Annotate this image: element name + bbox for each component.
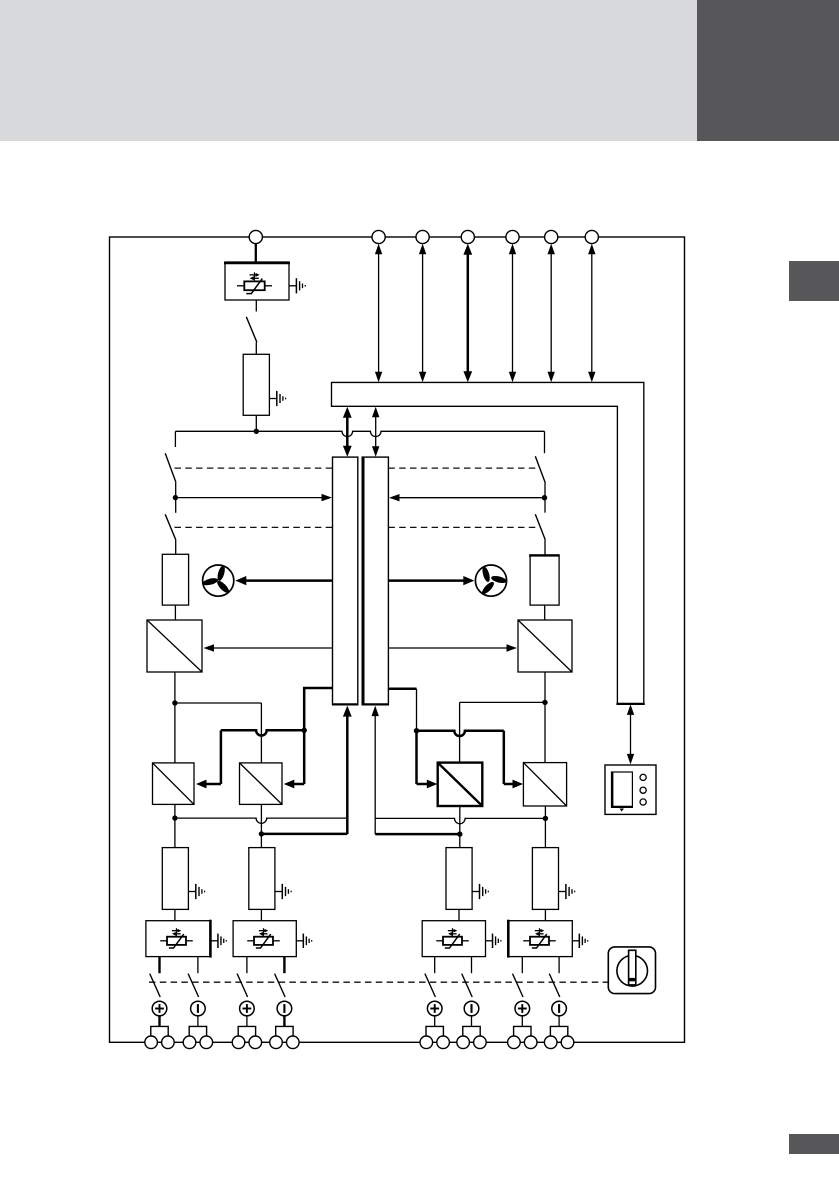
terminal bus 5 [545,230,558,243]
wire F6 to surge box [458,909,460,920]
converter U2 box [147,620,202,672]
terminal bracket 2 [189,1026,206,1036]
wire thin link left [175,818,347,823]
wire output stub 2 [197,957,199,974]
ground at F9 [296,940,303,942]
wire T1 to supply rail [255,415,257,431]
wire to terminal pair 4 [283,1016,285,1027]
wire left column drop [174,431,176,447]
wire to terminal pair 5 [434,1016,436,1027]
ground at F6 [472,891,479,893]
fuse F6 box [446,848,472,910]
wire output stub 4 [283,957,285,974]
wire arrow into U4 [205,783,221,786]
wire bus to display arrow [630,711,632,759]
wire dashed control right 2 [388,526,539,528]
wire to terminal pair 1 [158,1016,160,1027]
terminal bus 1 [372,230,385,243]
terminal bus 2 [416,230,429,243]
power supply T1 box [243,354,269,415]
converter U4 box [153,763,195,805]
terminal bracket 3 [238,1026,255,1036]
wire bus line 6 arrow [591,251,593,375]
wire dashed bottom control [149,981,608,983]
ground at F1 [289,285,296,287]
varistor RV5 [523,940,530,942]
terminal bracket 4 [276,1026,293,1036]
surge protector F8 box [146,921,211,957]
wire bus line 5 arrow [550,251,552,375]
ground at F10 [486,940,493,942]
wire bar A2 to fan B2 arrow [388,579,465,582]
switch S1 [246,317,257,343]
wire bus line 3 arrow [467,251,470,375]
wire output stub 7 [521,957,523,974]
node left column junction [173,495,178,500]
wire U6 to F6 [459,806,461,848]
switch output S10 [425,974,436,997]
node supply rail junction [254,429,259,434]
wire arrow into U5 [303,730,306,784]
display LED 3 [640,799,646,805]
terminal pair 4 circles [270,1036,283,1049]
wire output stub 1 [158,957,160,974]
switch S5 [535,514,545,540]
node right column junction [542,495,547,500]
bottom corner tab marker [789,1134,839,1154]
converter U5 box [240,763,283,805]
output polarity symbol 2 [191,1001,206,1016]
fuse F3 box [530,555,559,605]
wire S5 to F3 [544,540,546,555]
rotary switch S14 [608,947,655,994]
wire bus to bar A1 arrow [346,413,349,450]
wire F5 to surge box [260,909,262,920]
wire F1 to S1 [255,300,257,312]
wire U3 to U7 [544,672,546,763]
surge protector F9 box [233,921,296,957]
terminal bus 6 [585,230,598,243]
node below U5 [259,831,264,836]
fuse F4 box [162,848,188,910]
wire arrow into U7 [504,783,515,786]
wire bus line 1 arrow [378,251,380,375]
wire S3 to F2 [175,540,177,555]
isolation bar A2 [362,457,388,704]
wire right feed bold [417,731,504,736]
ground at F7 [559,891,566,893]
wire output stub 8 [558,957,560,974]
switch output S8 [237,974,248,997]
page header dark corner block [697,0,839,141]
wire left feed bold [221,730,304,735]
terminal pair 2 circles [183,1036,196,1049]
terminal bus 3 [461,230,474,243]
wire bar A1 tap bold [304,688,332,730]
terminal pair 6 circles [457,1036,470,1049]
wire bold link left [261,833,347,836]
wire to terminal pair 6 [471,1016,473,1027]
fuse F5 box [249,848,275,910]
wire U5 to F5 [260,804,262,847]
varistor RV3 [247,940,254,942]
converter U7 box [523,763,566,806]
switch output S6 [150,974,161,997]
fuse F7 box [532,848,558,910]
ground at F8 [211,940,218,942]
wire to terminal pair 8 [558,1016,560,1027]
node below U4 [172,815,177,820]
wire bold link right [375,833,460,836]
wire dashed control left 2 [175,526,333,528]
display LED 2 [640,787,646,793]
wire bar A2 tap bold [388,688,416,691]
switch output S11 [462,974,473,997]
display module P1 [605,765,656,814]
wire S2 to S3 [175,482,177,513]
wire S1 to T1 [255,342,257,354]
side tab marker [789,261,839,301]
terminal supply L+ [249,230,262,243]
terminal pair 3 circles [232,1036,245,1049]
wire supply lead [255,243,257,262]
wire U4 to F4 [174,804,176,847]
wire U2 to U4 [174,672,176,763]
wire branch to U5 [175,702,262,704]
output polarity symbol 8 [552,1001,567,1016]
wire output stub 3 [246,957,248,974]
wire A1 return arrow bold [346,712,349,834]
wire bus line 4 arrow [512,251,514,375]
wire bar A2 to U3 arrow [388,647,508,649]
wire F3 to U3 [544,605,546,620]
wire to terminal pair 2 [197,1016,199,1027]
fan symbol B2 [475,565,506,596]
wire thin link right [375,818,545,823]
switch output S13 [549,974,560,997]
node below U7 [543,816,548,821]
fan symbol B1 [203,565,234,596]
switch output S12 [513,974,524,997]
wire U7 to F7 [544,806,546,848]
varistor RV4 [436,940,443,942]
switch S2 [165,453,176,481]
wire bus line 2 arrow [422,251,424,375]
ground at F5 [275,891,282,893]
wire to terminal pair 3 [246,1016,248,1027]
wire supply rail [175,431,544,436]
wire F2 to U2 [174,605,176,620]
wire left data arrow to bar A1 [175,497,323,499]
terminal pair 7 circles [508,1036,521,1049]
isolation bar A1 [333,457,358,704]
output polarity symbol 4 [277,1001,292,1016]
terminal bracket 1 [151,1026,168,1036]
fuse F2 box [162,554,188,605]
wire right data arrow to bar A2 [398,497,545,499]
node below U6 [457,831,462,836]
output polarity symbol 7 [515,1001,530,1016]
wire output stub 6 [471,957,473,974]
page header light band [0,0,697,141]
diagram frame [110,237,685,1042]
ground at F11 [572,940,579,942]
wire branch to U6 [460,701,545,703]
wire S4 to S5 [544,483,546,513]
terminal pair 8 circles [544,1036,557,1049]
wire A2 return arrow [374,712,376,835]
ground at T1 [269,398,276,400]
node U2 branch [172,700,177,705]
output polarity symbol 5 [427,1001,442,1016]
surge protector F11 box [508,921,572,957]
wire bus to bar A2 arrow [375,413,377,450]
output polarity symbol 6 [464,1001,479,1016]
wire arrow into U6 [415,731,418,784]
converter U3 box [518,620,572,672]
switch output S7 [188,974,199,997]
node left feed junction [302,728,307,733]
varistor RV2 [160,940,167,942]
surge protector F10 box [422,921,485,957]
terminal pair 1 circles [145,1036,158,1049]
terminal bus 4 [506,230,519,243]
bus bar U1 [332,382,644,704]
wire dashed control right 1 [388,467,539,469]
terminal bracket 5 [426,1026,443,1036]
display LED 1 [640,774,646,780]
terminal pair 5 circles [420,1036,433,1049]
wire dashed control left 1 [175,467,333,469]
terminal bracket 8 [550,1026,567,1036]
wire to terminal pair 7 [521,1016,523,1027]
wire F4 to surge box [174,909,176,920]
varistor RV1 [237,285,244,287]
switch output S9 [275,974,286,997]
wire output stub 5 [434,957,436,974]
node U3 branch [542,700,547,705]
output polarity symbol 1 [152,1001,167,1016]
wire bar A1 to fan B1 arrow [244,579,333,582]
ground at F4 [188,891,195,893]
wire bar A1 to U2 arrow [212,647,333,649]
wire right feed drop [416,689,418,731]
surge protector F1 box [225,262,289,300]
switch S4 [535,456,545,483]
output polarity symbol 3 [240,1001,255,1016]
converter U6 box [438,763,483,806]
wire F7 to surge box [544,909,546,920]
terminal bracket 7 [514,1026,531,1036]
node right feed junction [414,728,419,733]
wire right column drop [544,431,546,453]
switch S3 [165,514,176,539]
terminal bracket 6 [463,1026,480,1036]
